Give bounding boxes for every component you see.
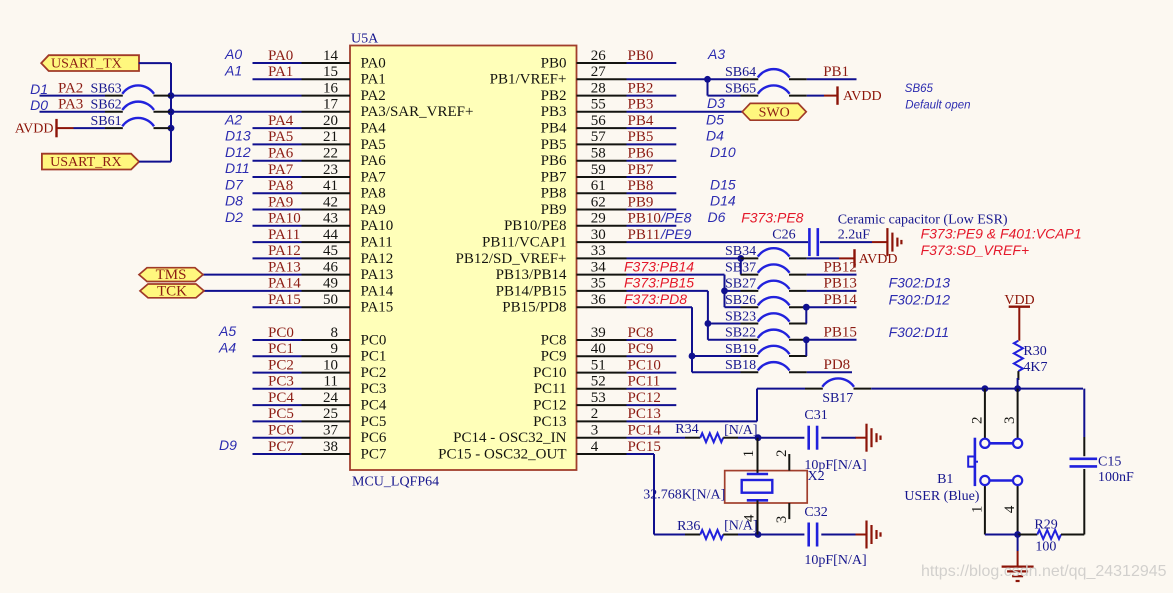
svg-text:SB19: SB19 <box>725 342 756 357</box>
svg-text:PB7: PB7 <box>541 169 567 185</box>
svg-text:/PE8: /PE8 <box>660 210 692 226</box>
svg-text:PB6: PB6 <box>541 153 567 169</box>
svg-text:27: 27 <box>591 64 607 80</box>
svg-text:PA2: PA2 <box>361 88 386 104</box>
svg-text:F302:D11: F302:D11 <box>889 324 949 340</box>
svg-text:53: 53 <box>591 390 606 406</box>
svg-text:PB10: PB10 <box>628 211 661 227</box>
svg-text:46: 46 <box>323 259 339 275</box>
svg-text:10pF[N/A]: 10pF[N/A] <box>804 553 866 568</box>
svg-text:PA1: PA1 <box>268 64 293 80</box>
svg-text:AVDD: AVDD <box>859 252 898 267</box>
svg-text:PC6: PC6 <box>268 423 294 439</box>
svg-text:C31: C31 <box>804 408 827 423</box>
svg-text:PB4: PB4 <box>628 113 654 129</box>
svg-text:USART_RX: USART_RX <box>50 155 122 170</box>
svg-text:F373:PD8: F373:PD8 <box>624 291 687 307</box>
svg-text:2: 2 <box>774 449 790 457</box>
svg-text:PC3: PC3 <box>361 381 387 397</box>
svg-text:PA10: PA10 <box>361 218 394 234</box>
svg-text:D8: D8 <box>225 193 243 209</box>
svg-text:PB9: PB9 <box>628 194 654 210</box>
svg-text:F302:D12: F302:D12 <box>889 292 951 308</box>
svg-text:D12: D12 <box>225 144 251 160</box>
svg-text:29: 29 <box>591 211 606 227</box>
svg-text:PC4: PC4 <box>268 390 294 406</box>
svg-text:PA10: PA10 <box>268 211 301 227</box>
svg-text:D14: D14 <box>710 193 736 209</box>
svg-text:PA4: PA4 <box>268 113 294 129</box>
svg-text:A4: A4 <box>218 340 236 356</box>
svg-text:SB37: SB37 <box>725 260 756 275</box>
svg-text:11: 11 <box>324 374 338 390</box>
svg-text:PA5: PA5 <box>361 137 386 153</box>
svg-text:PB13: PB13 <box>824 276 857 292</box>
svg-text:49: 49 <box>323 276 338 292</box>
svg-text:D1: D1 <box>30 81 48 97</box>
svg-text:PA2: PA2 <box>58 80 83 96</box>
svg-text:PA13: PA13 <box>268 259 301 275</box>
svg-text:100: 100 <box>1035 539 1056 554</box>
svg-text:SWO: SWO <box>759 105 790 120</box>
svg-text:PA9: PA9 <box>361 202 386 218</box>
svg-text:F302:D13: F302:D13 <box>889 274 951 290</box>
svg-text:PC10: PC10 <box>628 357 661 373</box>
svg-text:35: 35 <box>591 276 606 292</box>
svg-text:D9: D9 <box>219 437 237 453</box>
svg-text:https://blog.csdn.net/qq_24312: https://blog.csdn.net/qq_24312945 <box>921 563 1167 580</box>
svg-text:SB17: SB17 <box>822 391 853 406</box>
svg-text:PC0: PC0 <box>268 325 294 341</box>
svg-text:PB11/VCAP1: PB11/VCAP1 <box>482 235 566 251</box>
svg-text:USER (Blue): USER (Blue) <box>904 489 979 504</box>
svg-text:PA14: PA14 <box>361 283 394 299</box>
svg-text:X2: X2 <box>808 469 825 484</box>
svg-text:C15: C15 <box>1098 454 1121 469</box>
svg-text:42: 42 <box>323 194 338 210</box>
svg-text:PC4: PC4 <box>361 398 387 414</box>
svg-text:SB23: SB23 <box>725 309 756 324</box>
svg-text:PC10: PC10 <box>533 365 566 381</box>
svg-text:PA6: PA6 <box>268 146 294 162</box>
svg-text:PA8: PA8 <box>361 186 386 202</box>
svg-text:51: 51 <box>591 357 606 373</box>
svg-text:17: 17 <box>323 97 339 113</box>
svg-text:PC8: PC8 <box>541 332 567 348</box>
svg-text:[N/A]: [N/A] <box>724 423 757 438</box>
svg-text:SB27: SB27 <box>725 277 756 292</box>
svg-text:PB1: PB1 <box>823 64 849 80</box>
svg-text:16: 16 <box>323 80 339 96</box>
svg-text:D10: D10 <box>710 144 736 160</box>
svg-text:D5: D5 <box>706 111 724 127</box>
svg-text:PA5: PA5 <box>268 129 293 145</box>
svg-text:D4: D4 <box>706 128 724 144</box>
svg-text:R29: R29 <box>1034 517 1057 532</box>
svg-text:2.2uF: 2.2uF <box>838 228 871 243</box>
svg-text:PC9: PC9 <box>541 349 567 365</box>
svg-text:PC5: PC5 <box>268 406 294 422</box>
svg-text:PA8: PA8 <box>268 178 293 194</box>
svg-text:A1: A1 <box>224 63 242 79</box>
svg-text:/PE9: /PE9 <box>660 226 692 242</box>
svg-text:25: 25 <box>323 406 338 422</box>
svg-text:PB14/PB15: PB14/PB15 <box>496 283 567 299</box>
svg-text:SB63: SB63 <box>91 81 122 96</box>
svg-text:38: 38 <box>323 439 338 455</box>
svg-text:PB8: PB8 <box>541 186 567 202</box>
svg-text:D0: D0 <box>30 97 48 113</box>
svg-text:23: 23 <box>323 162 338 178</box>
svg-text:3: 3 <box>1002 416 1018 424</box>
svg-text:PB7: PB7 <box>628 162 654 178</box>
svg-text:R36: R36 <box>677 519 700 534</box>
svg-text:TMS: TMS <box>156 267 187 283</box>
svg-text:PC1: PC1 <box>268 341 294 357</box>
svg-text:PA7: PA7 <box>268 162 294 178</box>
svg-text:VDD: VDD <box>1004 293 1034 308</box>
svg-text:PC11: PC11 <box>628 374 661 390</box>
svg-text:4K7: 4K7 <box>1023 360 1047 375</box>
svg-text:PA12: PA12 <box>361 251 394 267</box>
svg-text:2: 2 <box>969 416 985 424</box>
svg-text:PC13: PC13 <box>533 414 566 430</box>
svg-text:PA3/SAR_VREF+: PA3/SAR_VREF+ <box>361 104 474 120</box>
svg-text:PA15: PA15 <box>268 292 301 308</box>
svg-text:SB18: SB18 <box>725 358 756 373</box>
svg-text:SB65: SB65 <box>725 81 756 96</box>
svg-text:24: 24 <box>323 390 339 406</box>
svg-text:C32: C32 <box>804 505 827 520</box>
svg-text:PB15/PD8: PB15/PD8 <box>502 300 566 316</box>
svg-text:52: 52 <box>591 374 606 390</box>
svg-text:SB61: SB61 <box>91 114 122 129</box>
svg-text:PC1: PC1 <box>361 349 387 365</box>
svg-text:PC2: PC2 <box>361 365 387 381</box>
svg-text:PB11: PB11 <box>628 227 661 243</box>
svg-text:22: 22 <box>323 146 338 162</box>
svg-text:56: 56 <box>591 113 607 129</box>
svg-text:PB2: PB2 <box>541 88 567 104</box>
svg-text:PB0: PB0 <box>541 55 567 71</box>
svg-text:F373:SD_VREF+: F373:SD_VREF+ <box>921 242 1030 258</box>
svg-text:15: 15 <box>323 64 338 80</box>
svg-text:SB65: SB65 <box>905 83 934 95</box>
svg-text:100nF: 100nF <box>1098 470 1134 485</box>
svg-text:D3: D3 <box>707 95 725 111</box>
svg-text:A3: A3 <box>707 46 725 62</box>
svg-text:PA4: PA4 <box>361 121 387 137</box>
svg-text:2: 2 <box>591 406 599 422</box>
svg-text:30: 30 <box>591 227 606 243</box>
svg-text:F373:PE9 & F401:VCAP1: F373:PE9 & F401:VCAP1 <box>921 226 1082 242</box>
svg-text:62: 62 <box>591 194 606 210</box>
svg-text:PA14: PA14 <box>268 276 301 292</box>
svg-text:PB1/VREF+: PB1/VREF+ <box>490 72 567 88</box>
svg-text:PB3: PB3 <box>541 104 567 120</box>
svg-text:PC2: PC2 <box>268 357 294 373</box>
svg-text:AVDD: AVDD <box>843 89 882 104</box>
svg-text:28: 28 <box>591 80 606 96</box>
svg-text:1: 1 <box>741 450 757 458</box>
svg-text:4: 4 <box>742 514 758 522</box>
svg-text:PC9: PC9 <box>628 341 654 357</box>
svg-text:PB10/PE8: PB10/PE8 <box>504 218 567 234</box>
svg-text:20: 20 <box>323 113 338 129</box>
svg-text:D6: D6 <box>708 209 726 225</box>
svg-text:44: 44 <box>323 227 339 243</box>
svg-text:PC7: PC7 <box>361 446 387 462</box>
svg-text:PA0: PA0 <box>268 48 293 64</box>
svg-text:U5A: U5A <box>351 32 379 47</box>
svg-text:PD8: PD8 <box>824 357 851 373</box>
svg-text:55: 55 <box>591 97 606 113</box>
svg-text:PB13/PB14: PB13/PB14 <box>496 267 567 283</box>
svg-text:AVDD: AVDD <box>15 122 54 137</box>
svg-text:37: 37 <box>323 423 339 439</box>
svg-text:3: 3 <box>774 516 790 524</box>
svg-text:40: 40 <box>591 341 606 357</box>
svg-text:PC0: PC0 <box>361 332 387 348</box>
svg-text:PC8: PC8 <box>628 325 654 341</box>
svg-text:D2: D2 <box>225 209 243 225</box>
svg-text:PA11: PA11 <box>268 227 300 243</box>
svg-text:PB12: PB12 <box>824 259 857 275</box>
svg-text:PB12/SD_VREF+: PB12/SD_VREF+ <box>456 251 567 267</box>
svg-text:PA12: PA12 <box>268 243 301 259</box>
svg-text:PB6: PB6 <box>628 146 654 162</box>
svg-text:26: 26 <box>591 48 607 64</box>
svg-text:PC6: PC6 <box>361 430 387 446</box>
svg-text:32.768K[N/A]: 32.768K[N/A] <box>643 487 725 502</box>
svg-text:PB5: PB5 <box>541 137 567 153</box>
svg-text:USART_TX: USART_TX <box>51 57 122 72</box>
svg-text:PB15: PB15 <box>824 325 857 341</box>
svg-text:R30: R30 <box>1023 344 1046 359</box>
svg-text:PC5: PC5 <box>361 414 387 430</box>
svg-text:SB64: SB64 <box>725 65 756 80</box>
svg-text:PC7: PC7 <box>268 439 294 455</box>
svg-text:F373:PB14: F373:PB14 <box>624 258 694 274</box>
svg-text:4: 4 <box>591 439 599 455</box>
svg-text:36: 36 <box>591 292 607 308</box>
svg-text:A5: A5 <box>218 323 236 339</box>
svg-text:PA15: PA15 <box>361 300 394 316</box>
svg-text:9: 9 <box>331 341 339 357</box>
svg-text:PB0: PB0 <box>628 48 654 64</box>
svg-text:14: 14 <box>323 48 339 64</box>
svg-text:PA6: PA6 <box>361 153 387 169</box>
svg-text:PA11: PA11 <box>361 235 393 251</box>
svg-text:21: 21 <box>323 129 338 145</box>
svg-text:D15: D15 <box>710 176 736 192</box>
svg-text:B1: B1 <box>937 472 953 487</box>
svg-text:F373:PB15: F373:PB15 <box>624 275 694 291</box>
svg-text:PC15 - OSC32_OUT: PC15 - OSC32_OUT <box>438 446 566 462</box>
svg-text:SB22: SB22 <box>725 326 756 341</box>
svg-text:50: 50 <box>323 292 338 308</box>
svg-text:43: 43 <box>323 211 338 227</box>
svg-text:PB9: PB9 <box>541 202 567 218</box>
svg-text:PB5: PB5 <box>628 129 654 145</box>
svg-text:PC15: PC15 <box>628 439 661 455</box>
svg-text:PB2: PB2 <box>628 80 654 96</box>
svg-text:PC14 - OSC32_IN: PC14 - OSC32_IN <box>453 430 567 446</box>
svg-text:D13: D13 <box>225 128 251 144</box>
svg-text:4: 4 <box>1002 505 1018 513</box>
svg-text:PC3: PC3 <box>268 374 294 390</box>
svg-text:8: 8 <box>331 325 339 341</box>
svg-text:D7: D7 <box>225 176 244 192</box>
svg-text:1: 1 <box>969 506 985 514</box>
svg-text:PB4: PB4 <box>541 121 567 137</box>
svg-text:A0: A0 <box>224 46 242 62</box>
svg-text:PA3: PA3 <box>58 97 83 113</box>
svg-text:PB8: PB8 <box>628 178 654 194</box>
svg-text:PC11: PC11 <box>534 381 567 397</box>
svg-text:PA13: PA13 <box>361 267 394 283</box>
svg-text:33: 33 <box>591 243 606 259</box>
svg-text:PC13: PC13 <box>628 406 661 422</box>
svg-text:39: 39 <box>591 325 606 341</box>
svg-text:PB14: PB14 <box>824 292 858 308</box>
svg-text:PC12: PC12 <box>533 398 566 414</box>
svg-text:45: 45 <box>323 243 338 259</box>
svg-text:PA9: PA9 <box>268 194 293 210</box>
svg-text:F373:PE8: F373:PE8 <box>741 209 803 225</box>
svg-text:Default open: Default open <box>905 100 970 112</box>
svg-text:41: 41 <box>323 178 338 194</box>
svg-text:C26: C26 <box>772 228 795 243</box>
svg-text:A2: A2 <box>224 111 242 127</box>
svg-text:PB3: PB3 <box>628 97 654 113</box>
svg-text:R34: R34 <box>675 422 698 437</box>
svg-text:57: 57 <box>591 129 607 145</box>
svg-text:58: 58 <box>591 146 606 162</box>
svg-text:MCU_LQFP64: MCU_LQFP64 <box>352 475 439 490</box>
svg-text:PC14: PC14 <box>628 423 662 439</box>
svg-text:SB62: SB62 <box>91 98 122 113</box>
svg-text:TCK: TCK <box>157 284 187 300</box>
svg-text:PA0: PA0 <box>361 55 386 71</box>
svg-text:61: 61 <box>591 178 606 194</box>
svg-text:PA7: PA7 <box>361 169 387 185</box>
svg-text:SB34: SB34 <box>725 244 756 259</box>
svg-text:D11: D11 <box>225 160 250 176</box>
svg-text:SB26: SB26 <box>725 293 756 308</box>
svg-text:3: 3 <box>591 423 599 439</box>
svg-text:59: 59 <box>591 162 606 178</box>
svg-text:PC12: PC12 <box>628 390 661 406</box>
svg-text:34: 34 <box>591 259 607 275</box>
svg-text:10: 10 <box>323 357 338 373</box>
svg-text:PA1: PA1 <box>361 72 386 88</box>
